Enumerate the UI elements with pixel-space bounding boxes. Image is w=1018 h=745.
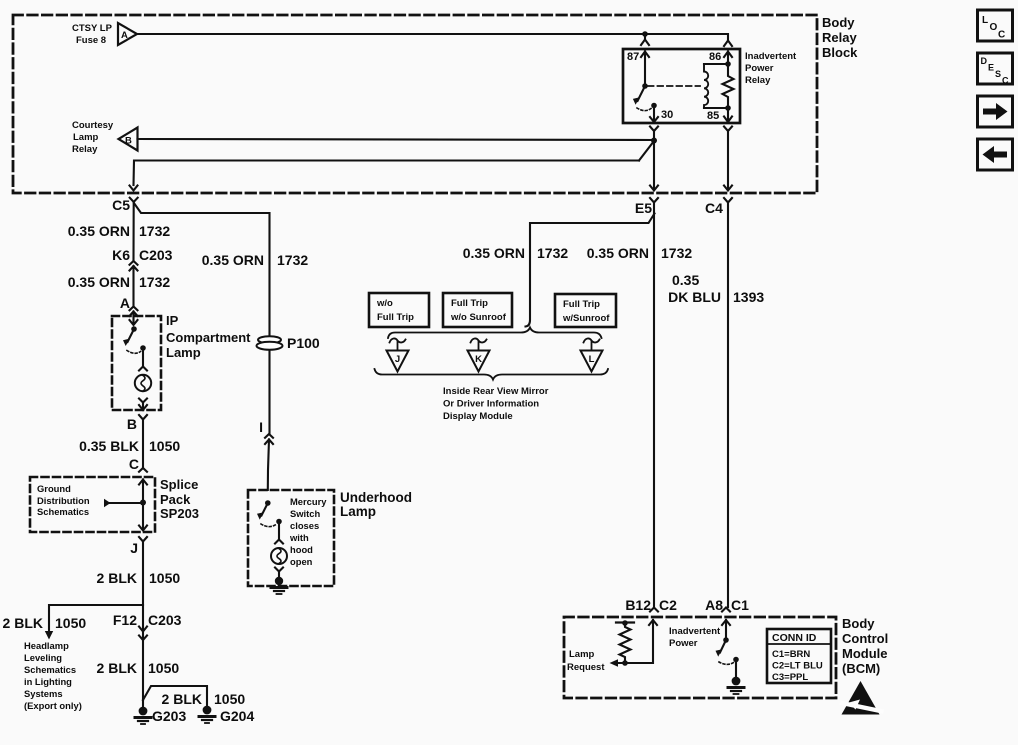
- ground G203: [135, 700, 151, 724]
- svg-text:0.35 ORN: 0.35 ORN: [68, 274, 130, 290]
- svg-text:Distribution: Distribution: [37, 495, 90, 506]
- svg-text:Inadvertent: Inadvertent: [669, 626, 721, 637]
- connector C1 fork at BCM: [722, 608, 730, 612]
- svg-text:85: 85: [707, 110, 719, 122]
- svg-text:Ground: Ground: [37, 483, 71, 494]
- label C: [129, 456, 139, 472]
- button next (right arrow): [978, 96, 1013, 127]
- label Ground Distribution Schematics: [37, 483, 90, 517]
- svg-text:Relay: Relay: [822, 30, 857, 45]
- svg-text:Block: Block: [822, 45, 858, 60]
- splice wire arrow down at box bottom: [139, 526, 147, 531]
- svg-text:Lamp: Lamp: [73, 132, 99, 143]
- IP lamp switch pivot node: [131, 326, 137, 332]
- relay resistor zigzag 86-85: [723, 64, 734, 108]
- BCM switch blade arrowhead: [716, 649, 723, 656]
- lower brace under J K L: [375, 369, 609, 380]
- svg-text:Body: Body: [822, 15, 855, 30]
- branch wire to G204: [143, 686, 207, 706]
- wire lower run to C5 corner: [134, 141, 655, 185]
- svg-text:C1=BRN: C1=BRN: [772, 649, 810, 660]
- arrow down at C5 block edge: [130, 186, 138, 191]
- grommet hook above J: [390, 338, 406, 350]
- relay coil branch top node: [725, 61, 731, 67]
- splice branch arrowhead: [104, 499, 111, 507]
- svg-text:O: O: [990, 22, 998, 33]
- svg-text:Control: Control: [842, 631, 888, 646]
- wire label 0.35 ORN 1732 (mirror branch): [463, 245, 569, 261]
- svg-text:hood: hood: [290, 544, 313, 555]
- svg-text:w/o Sunroof: w/o Sunroof: [450, 312, 507, 323]
- CONN ID table text: [772, 632, 823, 683]
- connector C2 fork at BCM: [650, 608, 658, 612]
- pin labels 87 86 30 85: [627, 51, 721, 122]
- label Splice Pack SP203: [160, 477, 199, 521]
- svg-text:Schematics: Schematics: [37, 506, 89, 517]
- relay coil branch bars: [704, 64, 728, 108]
- label Lamp Request: [567, 649, 605, 673]
- svg-text:CTSY LP: CTSY LP: [72, 23, 113, 34]
- connector A symbol: [130, 307, 138, 317]
- wire label 0.35 DK BLU 1393 (C4 wire): [668, 272, 764, 305]
- headlamp branch arrowhead down: [45, 631, 53, 640]
- relay actuation dashed link to coil: [648, 85, 700, 87]
- svg-text:1732: 1732: [139, 223, 170, 239]
- IP lamp switch blade: [128, 329, 135, 342]
- svg-text:C4: C4: [705, 200, 723, 216]
- svg-text:Or Driver Information: Or Driver Information: [443, 399, 539, 410]
- label Mercury Switch closes with hood open: [289, 496, 327, 567]
- svg-text:1732: 1732: [537, 245, 568, 261]
- connector fork below pin 85: [724, 127, 732, 189]
- svg-text:Systems: Systems: [24, 688, 63, 699]
- svg-text:Lamp: Lamp: [569, 649, 595, 660]
- svg-text:Mercury: Mercury: [290, 496, 327, 507]
- Body Control Module dashed box: [564, 617, 836, 698]
- underhood bulb top fork: [275, 540, 283, 544]
- label G203: [152, 708, 186, 724]
- svg-text:A: A: [120, 295, 130, 311]
- relay switch travel dotted arc: [637, 108, 651, 111]
- svg-text:1393: 1393: [733, 289, 764, 305]
- svg-text:C1: C1: [731, 597, 749, 613]
- BCM resistor zigzag: [620, 623, 631, 663]
- svg-text:87: 87: [627, 51, 639, 63]
- svg-text:0.35: 0.35: [672, 272, 699, 288]
- svg-text:(Export only): (Export only): [24, 700, 82, 711]
- button DESC: [978, 53, 1013, 84]
- underhood bulb bottom fork: [275, 568, 283, 578]
- svg-text:CONN ID: CONN ID: [772, 632, 817, 644]
- svg-text:1050: 1050: [214, 691, 245, 707]
- label K6 C203: [112, 247, 173, 263]
- connector fork pin 87: [641, 40, 649, 46]
- svg-text:2 BLK: 2 BLK: [3, 615, 43, 631]
- wire label 2 BLK 1050 (above branch): [97, 570, 181, 586]
- IP lamp switch contact node: [140, 345, 146, 351]
- BCM resistor top bar: [616, 621, 634, 623]
- IP lamp switch blade arrowhead: [123, 339, 130, 346]
- svg-text:Full Trip: Full Trip: [451, 298, 488, 309]
- svg-text:K6: K6: [112, 247, 130, 263]
- connector C4 fork: [724, 198, 732, 607]
- BCM resistor bottom node: [622, 660, 628, 666]
- mercury switch dotted arc: [261, 524, 276, 527]
- svg-text:Lamp: Lamp: [166, 345, 201, 360]
- relay coil branch bottom node: [725, 105, 731, 111]
- svg-text:Switch: Switch: [290, 508, 320, 519]
- splice branch line with right arrow: [110, 502, 143, 504]
- CONN ID table box: [767, 629, 831, 683]
- relay coil windings: [704, 64, 708, 108]
- label C5: [112, 197, 130, 213]
- svg-text:30: 30: [661, 109, 673, 121]
- svg-text:A8: A8: [705, 597, 723, 613]
- IP lamp switch input arrow: [130, 316, 138, 325]
- svg-text:D: D: [981, 56, 988, 66]
- triangle connector K: [468, 351, 490, 372]
- label Body Control Module (BCM): [842, 616, 888, 676]
- label Inside Rear View Mirror module: [443, 386, 549, 422]
- svg-text:C203: C203: [139, 247, 173, 263]
- svg-text:1732: 1732: [661, 245, 692, 261]
- svg-text:K: K: [475, 354, 482, 365]
- junction node pin30/courtesy wires: [651, 138, 657, 144]
- Underhood Lamp dashed box: [248, 490, 334, 586]
- BCM switch blade: [720, 640, 726, 653]
- svg-text:in Lighting: in Lighting: [24, 676, 72, 687]
- ground G204: [199, 706, 215, 723]
- svg-text:C: C: [1002, 76, 1009, 86]
- svg-text:Courtesy: Courtesy: [72, 120, 114, 131]
- svg-text:SP203: SP203: [160, 506, 199, 521]
- svg-text:2 BLK: 2 BLK: [97, 570, 137, 586]
- svg-text:0.35 ORN: 0.35 ORN: [202, 252, 264, 268]
- svg-text:E5: E5: [635, 200, 652, 216]
- svg-text:0.35 ORN: 0.35 ORN: [463, 245, 525, 261]
- connector K6/C203 symbol: [130, 261, 138, 305]
- IP lamp bulb filament: [141, 376, 145, 392]
- IP Compartment Lamp dashed box: [112, 316, 161, 410]
- mercury switch pivot node: [265, 500, 271, 506]
- svg-text:Relay: Relay: [745, 75, 771, 86]
- relay switch blade arrowhead: [633, 97, 640, 105]
- connector J fork: [139, 537, 147, 700]
- connector B fork below box: [139, 415, 147, 468]
- svg-text:G203: G203: [152, 708, 186, 724]
- IP lamp bulb: [135, 375, 151, 391]
- svg-text:2 BLK: 2 BLK: [97, 660, 137, 676]
- svg-text:1732: 1732: [139, 274, 170, 290]
- svg-text:1050: 1050: [149, 570, 180, 586]
- branch label 2 BLK 1050: [162, 691, 246, 707]
- wire 85 to C4 arrow at block edge: [724, 186, 732, 191]
- headlamp leveling branch wire: [49, 605, 143, 630]
- svg-text:S: S: [995, 69, 1001, 79]
- connector E5 fork: [650, 198, 658, 607]
- labels B12 C2 A8 C1: [625, 597, 749, 613]
- svg-text:Full Trip: Full Trip: [563, 299, 600, 310]
- BCM switch pivot node: [723, 637, 729, 643]
- svg-text:w/Sunroof: w/Sunroof: [562, 313, 610, 324]
- svg-text:2 BLK: 2 BLK: [162, 691, 202, 707]
- mercury switch contact node: [276, 519, 282, 525]
- pin 85 wire arrow down: [724, 108, 732, 122]
- relay switch pivot node: [642, 83, 648, 89]
- svg-text:Splice: Splice: [160, 477, 198, 492]
- svg-text:1050: 1050: [55, 615, 86, 631]
- label F12 C203: [113, 612, 182, 628]
- connector I symbol: [265, 434, 273, 490]
- wire label 0.35 ORN 1732 (row 1): [68, 223, 171, 239]
- Splice Pack SP203 dashed box (Ground Distribution Schematics): [30, 477, 155, 532]
- svg-text:0.35 ORN: 0.35 ORN: [587, 245, 649, 261]
- svg-text:Module: Module: [842, 646, 888, 661]
- svg-text:C2=LT BLU: C2=LT BLU: [772, 661, 823, 672]
- BCM switch dotted arc: [719, 662, 734, 664]
- grommet hook above L: [584, 338, 600, 350]
- svg-text:Fuse 8: Fuse 8: [76, 35, 106, 46]
- svg-text:with: with: [289, 532, 309, 543]
- Body Relay Block dashed box: [13, 15, 817, 193]
- junction node above pin 87: [642, 31, 648, 37]
- CONN ID header underline: [767, 643, 831, 645]
- svg-text:Lamp: Lamp: [340, 504, 376, 519]
- svg-text:J: J: [395, 354, 400, 365]
- pin 86 arrow up: [724, 52, 732, 65]
- option box Full Trip w/o Sunroof: [443, 293, 512, 327]
- svg-text:C: C: [998, 30, 1005, 41]
- label IP Compartment Lamp: [166, 313, 251, 360]
- svg-text:Compartment: Compartment: [166, 330, 251, 345]
- headlamp branch label 2 BLK 1050: [3, 615, 87, 631]
- svg-text:Leveling: Leveling: [24, 652, 62, 663]
- svg-text:J: J: [130, 540, 138, 556]
- svg-text:Full Trip: Full Trip: [377, 312, 414, 323]
- svg-text:L: L: [589, 354, 595, 365]
- bulb bottom fork and arrow out of box: [139, 399, 147, 411]
- relay switch blade: [638, 86, 646, 101]
- svg-text:closes: closes: [290, 520, 319, 531]
- triangle connector J: [387, 351, 409, 372]
- svg-text:Schematics: Schematics: [24, 664, 76, 675]
- triangle connector L: [581, 351, 603, 372]
- connector fork pin 86: [724, 41, 732, 47]
- wire pin 30 down to E5 with arrow: [650, 140, 658, 191]
- label Inadvertent Power (BCM): [669, 626, 721, 649]
- label Inadvertent Power Relay: [745, 51, 797, 86]
- mercury switch blade: [262, 503, 268, 516]
- underhood lamp ground: [271, 577, 287, 594]
- svg-text:I: I: [259, 419, 263, 435]
- svg-text:G204: G204: [220, 708, 254, 724]
- svg-text:L: L: [982, 15, 988, 26]
- wire label 0.35 ORN 1732 (row 2): [68, 274, 171, 290]
- labels E5 C4: [635, 200, 723, 216]
- wire P100 down to connector I: [268, 350, 270, 433]
- svg-text:B12: B12: [625, 597, 651, 613]
- wire label 0.35 ORN 1732 (P100 branch): [202, 252, 309, 268]
- svg-text:1050: 1050: [149, 438, 180, 454]
- IP lamp switch dotted arc: [127, 351, 141, 354]
- svg-text:B: B: [127, 416, 137, 432]
- svg-text:IP: IP: [166, 313, 179, 328]
- button back (left arrow): [978, 139, 1013, 170]
- svg-text:C: C: [129, 456, 139, 472]
- button LOC: [978, 10, 1013, 41]
- label I: [259, 419, 263, 435]
- pin 87 arrow up: [641, 52, 649, 87]
- svg-text:0.35 BLK: 0.35 BLK: [79, 438, 139, 454]
- BCM switch wire to ground: [735, 660, 737, 678]
- svg-text:DK BLU: DK BLU: [668, 289, 721, 305]
- svg-text:A: A: [121, 30, 128, 41]
- connector C5 fork: [130, 198, 138, 260]
- label Headlamp Leveling Schematics: [24, 640, 82, 711]
- svg-text:1732: 1732: [277, 252, 308, 268]
- ESD warning symbol: [840, 681, 885, 715]
- label P100: [287, 335, 320, 351]
- Inadvertent Power Relay box: [623, 49, 740, 123]
- lamp request arrowhead left: [610, 659, 619, 667]
- BCM lamp request input arrow up: [617, 620, 657, 663]
- underhood bulb filament: [277, 549, 281, 564]
- svg-text:C2: C2: [659, 597, 677, 613]
- BCM switch contact node: [733, 657, 739, 663]
- grommet hook above K: [471, 338, 487, 350]
- svg-text:Power: Power: [669, 638, 698, 649]
- svg-text:Display Module: Display Module: [443, 411, 513, 422]
- svg-text:Underhood: Underhood: [340, 490, 412, 505]
- wire stub down to pin 87 connector: [644, 34, 646, 39]
- svg-text:C3=PPL: C3=PPL: [772, 672, 808, 683]
- svg-text:C203: C203: [148, 612, 182, 628]
- courtesy lamp relay triangle B: [119, 128, 138, 151]
- pass-through grommet P100: [257, 336, 283, 350]
- svg-text:Pack: Pack: [160, 492, 191, 507]
- svg-text:C5: C5: [112, 197, 130, 213]
- label B: [127, 416, 137, 432]
- svg-text:Headlamp: Headlamp: [24, 640, 69, 651]
- svg-text:E: E: [988, 63, 994, 73]
- wire contact to underhood bulb: [278, 522, 280, 540]
- bulb top connector fork: [139, 367, 147, 371]
- BCM resistor top node: [622, 620, 628, 626]
- splice wire arrow up: [139, 480, 147, 530]
- upper brace over J K L: [388, 328, 602, 339]
- svg-text:Request: Request: [567, 662, 605, 673]
- svg-text:86: 86: [709, 51, 721, 63]
- svg-text:w/o: w/o: [376, 298, 393, 309]
- relay switch contact node: [651, 103, 657, 109]
- svg-text:Inside Rear View Mirror: Inside Rear View Mirror: [443, 386, 549, 397]
- svg-text:Body: Body: [842, 616, 875, 631]
- svg-text:P100: P100: [287, 335, 320, 351]
- connector C fork: [139, 468, 147, 472]
- underhood lamp bulb: [271, 548, 287, 564]
- BCM ground: [728, 677, 744, 694]
- label J: [130, 540, 138, 556]
- branch wire C5 to P100 drop: [134, 203, 270, 336]
- connector F12/C203 symbol: [139, 627, 147, 641]
- svg-text:B: B: [125, 136, 132, 147]
- splice junction node: [140, 500, 146, 506]
- svg-text:(BCM): (BCM): [842, 661, 880, 676]
- wire courtesy relay B to junction: [138, 139, 655, 140]
- mercury switch blade arrowhead: [257, 512, 264, 519]
- svg-text:0.35 ORN: 0.35 ORN: [68, 223, 130, 239]
- wire from fuse A to relay pins 87/86: [137, 34, 728, 40]
- label G204: [220, 708, 254, 724]
- svg-text:Relay: Relay: [72, 144, 98, 155]
- pin 30 wire with arrow down: [650, 106, 658, 123]
- fuse source triangle A (CTSY LP Fuse 8): [118, 23, 137, 45]
- connector fork below pin 30: [650, 127, 658, 141]
- BCM inadvertent power arrow up: [722, 620, 730, 640]
- svg-text:F12: F12: [113, 612, 137, 628]
- label A: [120, 295, 130, 311]
- wire contact to bulb: [142, 348, 144, 366]
- svg-text:Power: Power: [745, 63, 774, 74]
- wire label 0.35 ORN 1732 (E5 wire): [587, 245, 693, 261]
- svg-text:open: open: [290, 556, 313, 567]
- label Body Relay Block: [822, 15, 858, 60]
- wire label 0.35 BLK 1050: [79, 438, 180, 454]
- option box w/o Full Trip: [369, 293, 429, 327]
- svg-text:1050: 1050: [148, 660, 179, 676]
- label Underhood Lamp: [340, 490, 412, 519]
- svg-text:Inadvertent: Inadvertent: [745, 51, 797, 62]
- wire label 2 BLK 1050 (below F12): [97, 660, 180, 676]
- branch wire E5 to mirror modules: [526, 214, 655, 327]
- option box Full Trip w/Sunroof: [555, 294, 616, 327]
